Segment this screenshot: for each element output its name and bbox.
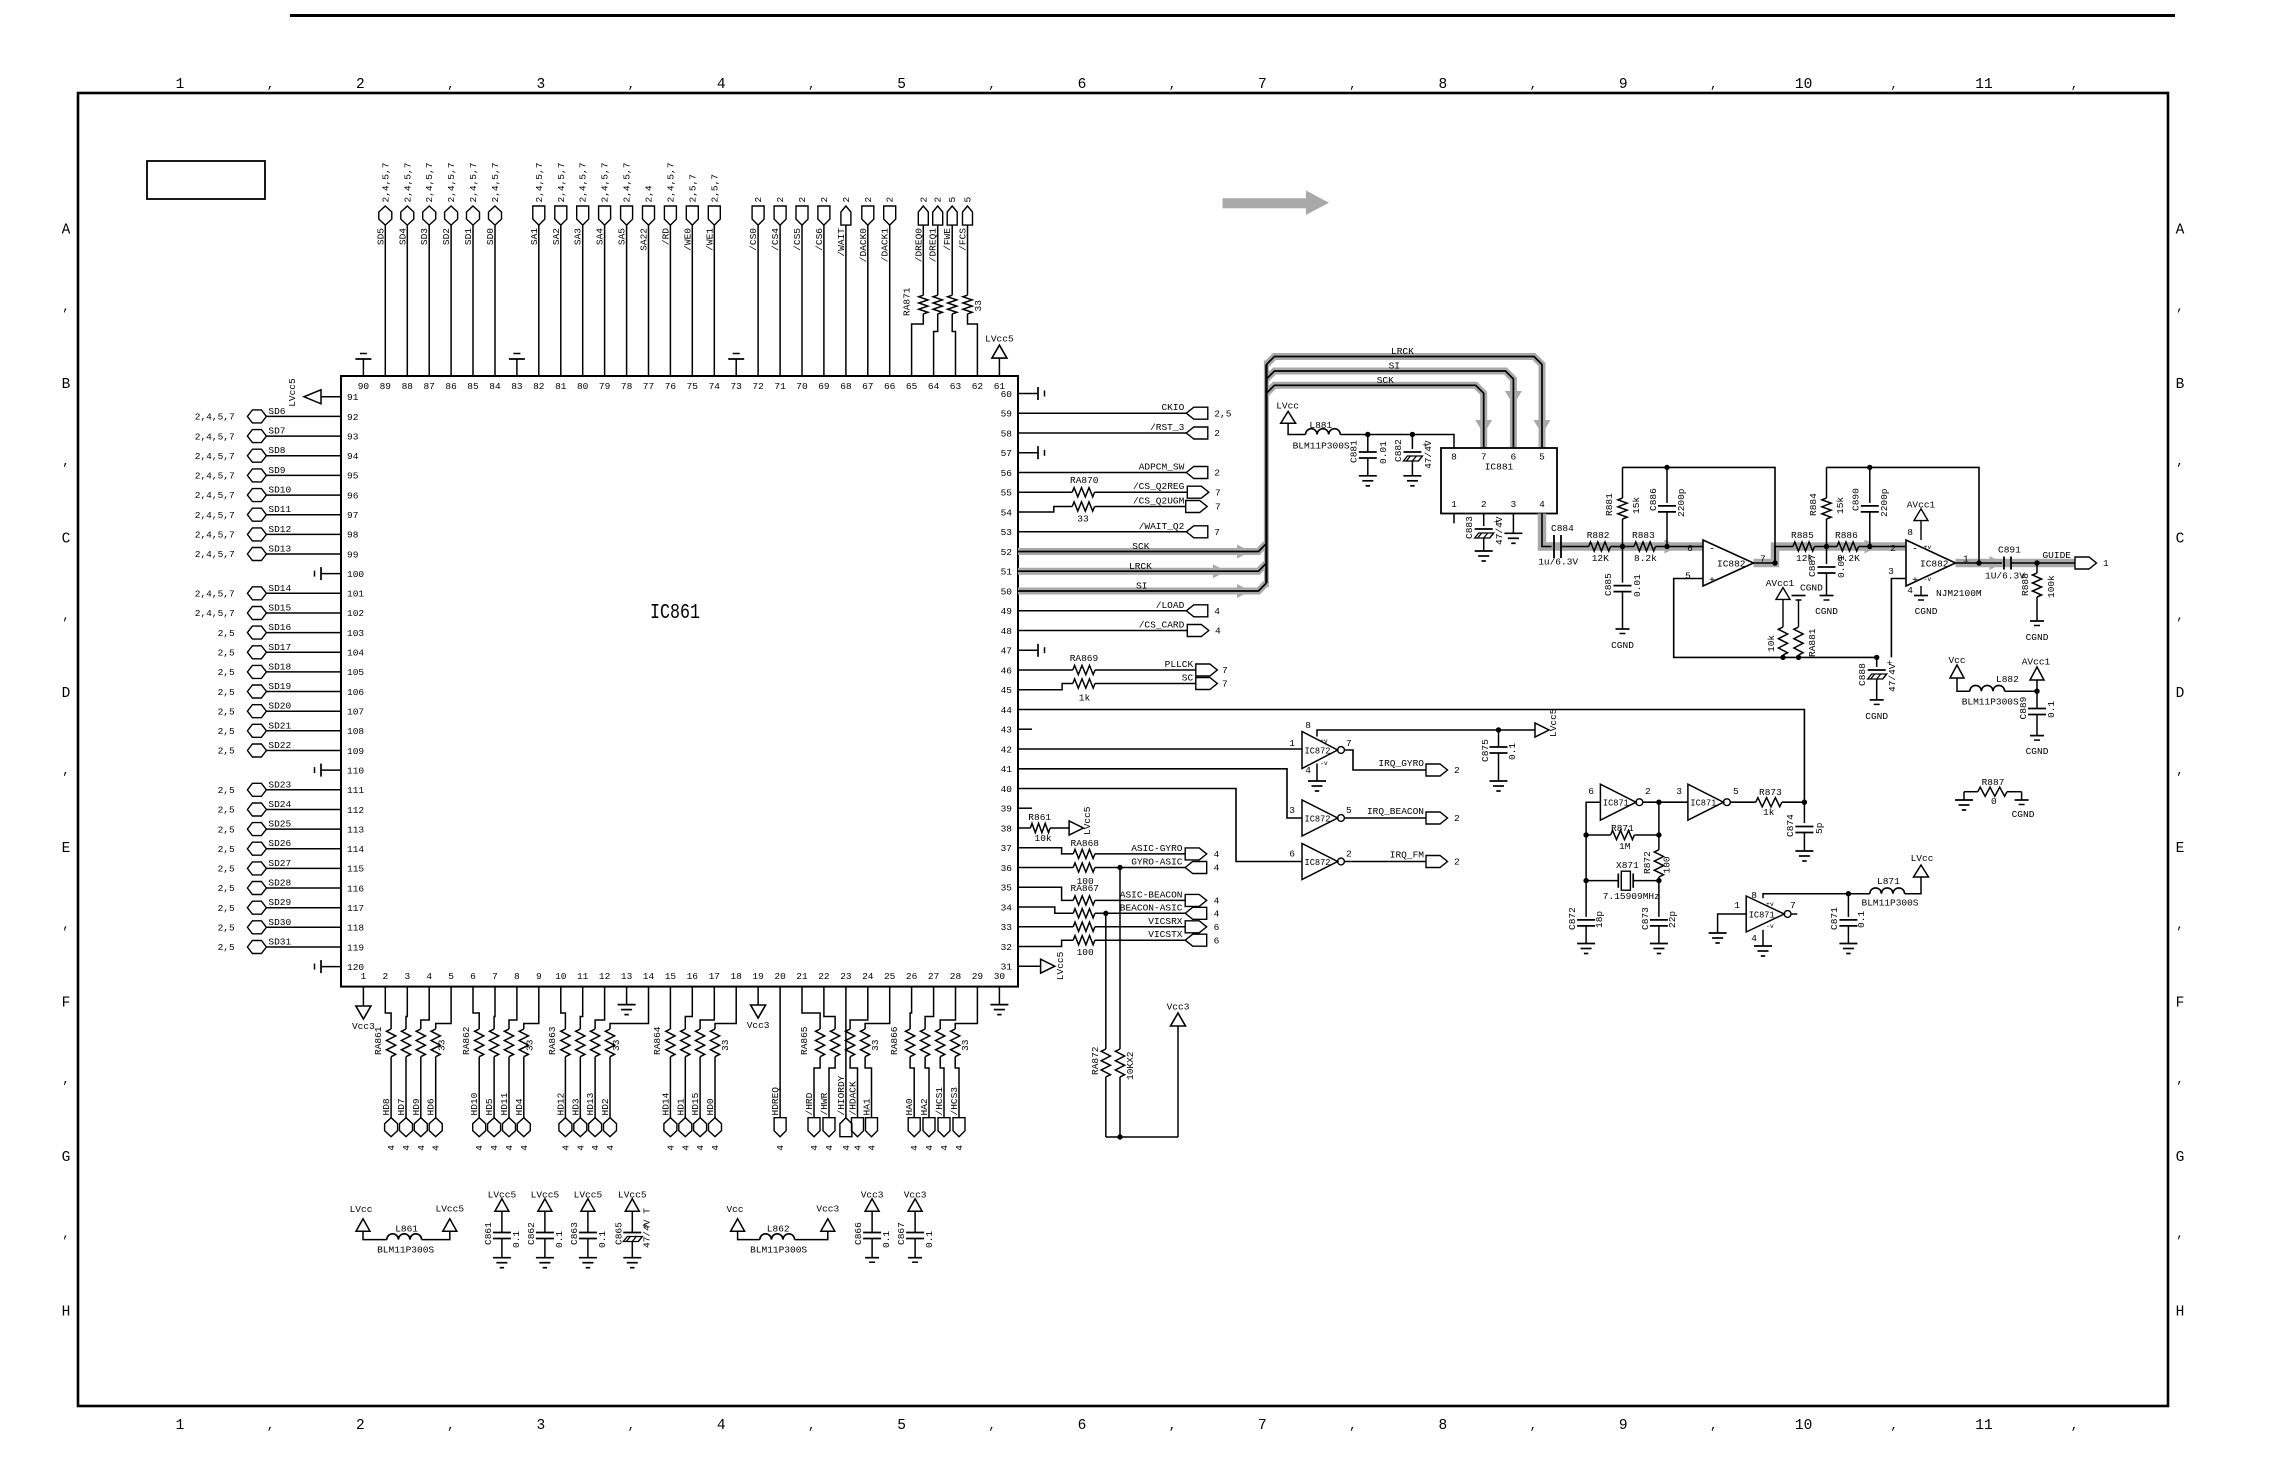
svg-text:HD15: HD15 [690,1092,701,1115]
svg-text:68: 68 [840,381,852,392]
svg-text:1k: 1k [1763,807,1775,818]
connector IRQ_GYRO [1426,764,1448,776]
svg-text:4: 4 [954,1145,965,1151]
svg-text:21: 21 [796,971,808,982]
svg-text:,: , [62,1228,69,1242]
svg-text:4: 4 [519,1145,530,1151]
svg-text:/WAIT_Q2: /WAIT_Q2 [1139,521,1185,532]
svg-text:/DREQ1: /DREQ1 [928,228,939,263]
svg-text:R887: R887 [1982,777,2005,788]
wire pin to /LOAD [1018,610,1186,612]
svg-text:,: , [988,78,995,92]
wire pin 3 jog to RA861 resistor 2 [406,987,407,1029]
RA862 resistor element 2 [490,1029,499,1057]
grey arrow LRCK [1213,564,1227,578]
wire pin 25 jog to RA865 resistor 4 [865,987,890,1029]
svg-text:1u/6.3V: 1u/6.3V [1538,557,1578,568]
wire resistor to connector [937,225,939,295]
connector /DREQ1 [933,206,943,225]
svg-text:6: 6 [1588,786,1594,797]
wire pin 69 to /CS6 [823,225,825,376]
svg-text:SD3: SD3 [419,228,430,245]
svg-text:4: 4 [775,1145,786,1151]
svg-text:RA870: RA870 [1070,475,1099,486]
svg-text:7: 7 [1258,1418,1267,1434]
power LVcc5 after R861 [1069,821,1083,835]
wire SI top run [1266,371,1513,448]
title box [147,161,265,199]
svg-text:SA2: SA2 [551,228,562,245]
svg-text:F: F [62,995,71,1011]
svg-text:2,4,5,7: 2,4,5,7 [195,510,235,521]
capacitor C882 electrolytic [1411,435,1413,450]
svg-text:8: 8 [1907,527,1913,538]
svg-text:2,4,5,7: 2,4,5,7 [195,471,235,482]
wire resistor to connector HD6 [435,1057,437,1118]
capacitor C875 [1498,730,1500,747]
connector HD5 [488,1118,501,1137]
svg-text:110: 110 [347,765,364,776]
svg-text:60: 60 [1001,389,1013,400]
svg-text:8: 8 [1438,1418,1447,1434]
wire SD17 to pin 104 [266,651,341,653]
svg-text:2: 2 [797,197,808,203]
wire pin 18 jog to RA864 resistor 4 [715,987,736,1029]
svg-text:0.1: 0.1 [924,1231,935,1248]
capacitor C867 [914,1211,916,1232]
connector /HIORDY [840,1118,852,1137]
svg-text:/HRD: /HRD [804,1092,815,1115]
svg-text:R882: R882 [1587,530,1610,541]
svg-text:111: 111 [347,785,364,796]
connector SD5 [379,206,392,225]
connector SD16 [247,626,266,639]
wire SCK top run [1266,385,1483,448]
junction output/feedback [1772,560,1777,565]
connector HD0 [709,1118,722,1137]
RA861 resistor element 4 [431,1029,440,1057]
svg-text:91: 91 [347,392,359,403]
inductor L882 [1970,685,2005,691]
wire pin 81 to SA2 [560,225,562,376]
svg-text:3: 3 [536,77,545,93]
svg-text:4: 4 [809,1145,820,1151]
svg-text:97: 97 [347,510,358,521]
connector HA1 [866,1118,878,1137]
wire C884 to R882 [1561,546,1589,548]
svg-text:2,4,5,7: 2,4,5,7 [534,163,545,203]
wire R885 to R886 [1815,546,1838,548]
svg-text:LVcc5: LVcc5 [436,1204,465,1215]
connector SD12 [247,528,266,541]
svg-text:SI: SI [1136,581,1147,592]
svg-text:0.1: 0.1 [2046,701,2057,718]
svg-text:+v: +v [1766,901,1774,908]
nc cap pin 110 [321,769,341,771]
connector SD22 [247,744,266,757]
resistor 10KX2 pull-down [1119,868,1121,1050]
svg-text:7: 7 [1222,665,1228,676]
svg-text:7: 7 [1346,738,1352,749]
connector ASIC-GYRO [1185,848,1207,860]
svg-text:LVcc5: LVcc5 [1055,951,1066,980]
svg-text:AVcc1: AVcc1 [2022,657,2051,668]
junction X871 right [1656,878,1661,883]
svg-text:2,5,7: 2,5,7 [709,174,720,203]
RA871 resistor element 2 [933,295,942,314]
wire resistor to connector /HRD [814,1057,820,1118]
svg-text:55: 55 [1001,488,1013,499]
svg-text:9: 9 [1619,1418,1628,1434]
svg-text:53: 53 [1001,527,1013,538]
svg-text:,: , [988,1419,995,1433]
svg-text:BLM11P300S: BLM11P300S [1293,441,1350,452]
svg-text:78: 78 [621,381,633,392]
svg-text:HA0: HA0 [904,1098,915,1115]
opamp2 output wire [1956,562,2003,564]
svg-text:,: , [808,78,815,92]
gateC output stub [1791,913,1797,915]
svg-text:,: , [628,78,635,92]
svg-text:SD9: SD9 [268,465,285,476]
wire SD14 to pin 101 [266,592,341,594]
svg-text:4: 4 [710,1145,721,1151]
RA868 element 1 on pin 37 [1018,848,1073,854]
svg-text:,: , [1349,1419,1356,1433]
svg-text:/WAIT: /WAIT [836,228,847,257]
svg-text:/HCS3: /HCS3 [949,1087,960,1116]
svg-text:RA866: RA866 [889,1026,900,1055]
audio trace highlight opamp1 out to opamp2 [1754,547,1907,564]
svg-text:L862: L862 [767,1224,790,1235]
svg-text:A: A [2176,223,2185,239]
power LVcc5 [443,1219,457,1232]
svg-text:104: 104 [347,648,364,659]
svg-text:SD16: SD16 [268,622,291,633]
wire resistor to connector [967,225,969,295]
capacitor C886 feedback [1666,467,1668,503]
svg-text:8: 8 [1305,720,1311,731]
RA866 resistor element 1 [906,1029,915,1057]
svg-text:2: 2 [1214,428,1220,439]
connector /HRD [808,1118,820,1137]
svg-text:BLM11P300S: BLM11P300S [377,1245,434,1256]
svg-text:,: , [1530,78,1537,92]
wire pin to CKIO [1018,412,1186,414]
wire resistor to connector HA0 [910,1057,914,1118]
connector SA3 [577,206,589,225]
svg-text:2: 2 [753,197,764,203]
svg-text:7: 7 [1258,77,1267,93]
svg-text:4: 4 [924,1145,935,1151]
resistor RA881 element 1 10k [1778,627,1787,655]
svg-text:C872: C872 [1567,907,1578,930]
svg-text:4: 4 [717,1418,726,1434]
svg-text:2,4,5,7: 2,4,5,7 [622,163,633,203]
connector /RD [664,206,676,225]
svg-text:G: G [2176,1150,2185,1166]
svg-text:HD14: HD14 [660,1092,671,1115]
nc cap pin 60 [1018,393,1038,395]
svg-text:50: 50 [1001,586,1013,597]
svg-text:4: 4 [1305,765,1311,776]
svg-text:C885: C885 [1603,573,1614,596]
svg-text:AVcc1: AVcc1 [1766,578,1795,589]
svg-text:92: 92 [347,412,359,423]
wire SD21 to pin 108 [266,730,341,732]
svg-text:D: D [2176,686,2185,702]
inverter IC871 gate B [1688,784,1724,820]
nc cap pin 47 [1018,649,1038,651]
RA865 resistor element 4 [861,1029,870,1057]
svg-text:2: 2 [1481,499,1487,510]
svg-text:CGND: CGND [2012,809,2035,820]
svg-text:CGND: CGND [1800,583,1823,594]
power LVcc5 at pin 61 [998,358,1000,376]
svg-text:,: , [1710,78,1717,92]
svg-text:26: 26 [906,971,918,982]
wire pin 62 jog to RA871 resistor 4 [968,314,978,376]
svg-text:82: 82 [533,381,545,392]
svg-text:4: 4 [416,1145,427,1151]
connector ASIC-BEACON [1185,894,1207,906]
svg-text:/RST_3: /RST_3 [1150,422,1185,433]
svg-text:4: 4 [1751,933,1757,944]
svg-text:18p: 18p [1594,911,1605,928]
svg-text:C866: C866 [853,1222,864,1245]
junction C882 [1410,432,1415,437]
RA867 element 1 on pin 35 [1018,887,1073,900]
svg-text:100: 100 [347,569,364,580]
wire resistor to connector /HCS3 [955,1057,959,1118]
wire pin 5 jog to RA861 resistor 4 [436,987,451,1029]
connector /HDACK [852,1118,864,1137]
svg-text:,: , [2176,1073,2183,1087]
svg-text:CGND: CGND [1865,711,1888,722]
svg-text:C: C [2176,532,2185,548]
svg-text:4: 4 [939,1145,950,1151]
svg-text:/HIORDY: /HIORDY [836,1075,847,1115]
svg-text:/CS6: /CS6 [814,228,825,251]
svg-text:119: 119 [347,942,364,953]
svg-text:22p: 22p [1667,911,1678,928]
svg-text:-: - [1709,545,1715,556]
connector HD13 [589,1118,602,1137]
svg-text:/LOAD: /LOAD [1156,600,1185,611]
svg-text:2,4,5,7: 2,4,5,7 [195,530,235,541]
RA867 element 3 on pin 33 [1018,926,1073,928]
ground pin 13 [626,987,628,1005]
svg-text:CGND: CGND [1815,606,1838,617]
connector SD19 [247,685,266,698]
svg-text:HD11: HD11 [499,1092,510,1115]
svg-text:2,4,5,7: 2,4,5,7 [578,163,589,203]
svg-text:SD8: SD8 [268,445,285,456]
RA865 resistor element 3 [846,1029,855,1057]
svg-text:4: 4 [717,77,726,93]
svg-text:,: , [447,78,454,92]
wire pin 72 to /CS0 [757,225,759,376]
svg-text:SD25: SD25 [268,819,291,830]
wire resistor to connector HD13 [594,1057,596,1118]
svg-text:RA864: RA864 [652,1026,663,1055]
connector /CS0 [752,206,764,225]
wire pin 11 jog to RA863 resistor 2 [580,987,582,1029]
svg-text:,: , [1890,78,1897,92]
wire resistor to connector HD11 [508,1057,510,1118]
svg-text:,: , [62,1073,69,1087]
svg-text:,: , [447,1419,454,1433]
svg-text:12K: 12K [1592,553,1609,564]
connector HD12 [559,1118,572,1137]
connector ADPCM_SW [1186,467,1208,479]
svg-text:4: 4 [1907,585,1913,596]
svg-text:2,4,5,7: 2,4,5,7 [380,163,391,203]
wire resistor to connector [922,225,924,295]
junction X871 left [1583,878,1588,883]
connector SD30 [247,921,266,934]
capacitor C883 electrolytic on IC881 pin 2 [1483,514,1485,527]
gateC input grounded [1718,914,1747,933]
wire pin 41 to IC872 gate 2 input [1018,769,1302,818]
junction R871 left [1583,832,1588,837]
svg-text:7.15909MHz: 7.15909MHz [1603,891,1660,902]
RA863 resistor element 2 [576,1029,585,1057]
capacitor C888 electrolytic bias [1874,655,1879,660]
svg-text:8.2k: 8.2k [1634,553,1657,564]
svg-text:/HWR: /HWR [819,1092,830,1115]
svg-text:SD24: SD24 [268,799,291,810]
connector /DACK1 [884,206,896,225]
connector /HWR [823,1118,835,1137]
svg-text:9: 9 [536,971,542,982]
RA861 resistor element 2 [401,1029,410,1057]
svg-text:HD12: HD12 [555,1092,566,1115]
svg-text:0.1: 0.1 [1507,743,1518,760]
svg-text:15k: 15k [1835,497,1846,514]
svg-text:1: 1 [176,77,185,93]
svg-text:11: 11 [1975,1418,1992,1434]
svg-text:33: 33 [870,1039,881,1051]
svg-text:HD3: HD3 [570,1098,581,1115]
svg-text:1: 1 [1734,900,1740,911]
svg-text:RA863: RA863 [547,1026,558,1055]
svg-text:3: 3 [1888,566,1894,577]
gateC power pin 8 [1763,894,1848,899]
wire SD27 to pin 115 [266,867,341,869]
connector /WAIT_Q2 [1186,526,1208,538]
svg-text:,: , [808,1419,815,1433]
svg-text:CGND: CGND [2026,746,2049,757]
opamp1 output wire [1754,547,1794,564]
svg-text:52: 52 [1001,547,1013,558]
wire pin 16 jog to RA864 resistor 2 [685,987,692,1029]
power LVcc [1914,865,1929,877]
bus top run SCK highlight [1266,385,1483,448]
svg-text:3: 3 [1676,786,1682,797]
resistor RA870 element 1 on pin 55 [1018,491,1072,493]
svg-text:69: 69 [818,381,830,392]
svg-text:4: 4 [1214,909,1220,920]
svg-text:SA1: SA1 [529,228,540,245]
svg-text:113: 113 [347,824,364,835]
bus trace SI highlight [1018,583,1266,591]
svg-text:6: 6 [1289,849,1295,860]
RA862 resistor element 4 [519,1029,528,1057]
svg-text:100k: 100k [2046,575,2057,598]
power Vcc3 at pin 1 [362,987,364,1006]
svg-text:IC882: IC882 [1717,559,1746,570]
wire pin 64 jog to RA871 resistor 2 [934,314,938,376]
resistor R861 on pin 38 [1018,827,1030,829]
svg-text:33: 33 [525,1039,536,1051]
svg-text:2: 2 [933,197,944,203]
svg-text:99: 99 [347,549,359,560]
power Vcc3 [821,1219,835,1232]
svg-text:8: 8 [514,971,520,982]
wire resistor to connector HD8 [390,1057,392,1118]
svg-text:4: 4 [590,1145,601,1151]
connector SD29 [247,901,266,914]
svg-text:96: 96 [347,490,359,501]
wire SD24 to pin 112 [266,809,341,811]
wire pin 79 to SA4 [604,225,606,376]
svg-text:/CS4: /CS4 [770,228,781,251]
connector HD7 [400,1118,413,1137]
junction R884 [1824,544,1829,549]
wire resistor to connector HD14 [669,1057,671,1118]
wire SD6 to pin 92 [266,415,341,417]
svg-text:2,4,5,7: 2,4,5,7 [195,608,235,619]
svg-text:8: 8 [1751,890,1757,901]
svg-text:NJM2100M: NJM2100M [1936,588,1982,599]
svg-text:RA861: RA861 [373,1026,384,1055]
svg-text:37: 37 [1001,843,1012,854]
feedback wire stage 2 [1827,467,1980,563]
svg-text:RA869: RA869 [1070,653,1099,664]
RA866 resistor element 3 [936,1029,945,1057]
svg-text:E: E [62,841,71,857]
svg-text:HD8: HD8 [381,1098,392,1115]
connector HA0 [908,1118,920,1137]
svg-text:C874: C874 [1785,814,1796,837]
svg-text:6: 6 [1214,922,1220,933]
connector SD3 [423,206,436,225]
svg-text:116: 116 [347,883,364,894]
svg-text:B: B [2176,377,2185,393]
capacitor C865 [631,1211,633,1232]
svg-text:R883: R883 [1632,530,1655,541]
svg-text:46: 46 [1001,665,1013,676]
svg-text:2: 2 [1454,813,1460,824]
svg-text:CGND: CGND [1611,640,1634,651]
wire LVcc to L881 [1288,423,1305,434]
capacitor C863 [587,1211,589,1232]
svg-text:2,4,5,7: 2,4,5,7 [490,163,501,203]
svg-text:5p: 5p [1814,822,1825,834]
svg-text:B: B [62,377,71,393]
svg-text:R872: R872 [1642,851,1653,874]
wire resistor to connector HD12 [564,1057,566,1118]
capacitor C873 [1658,881,1660,917]
svg-text:10k: 10k [1766,635,1777,652]
svg-text:27: 27 [928,971,939,982]
svg-text:24: 24 [862,971,874,982]
RA864 resistor element 4 [710,1029,719,1057]
svg-text:0.1: 0.1 [554,1231,565,1248]
svg-text:58: 58 [1001,428,1013,439]
wire SD23 to pin 111 [266,789,341,791]
